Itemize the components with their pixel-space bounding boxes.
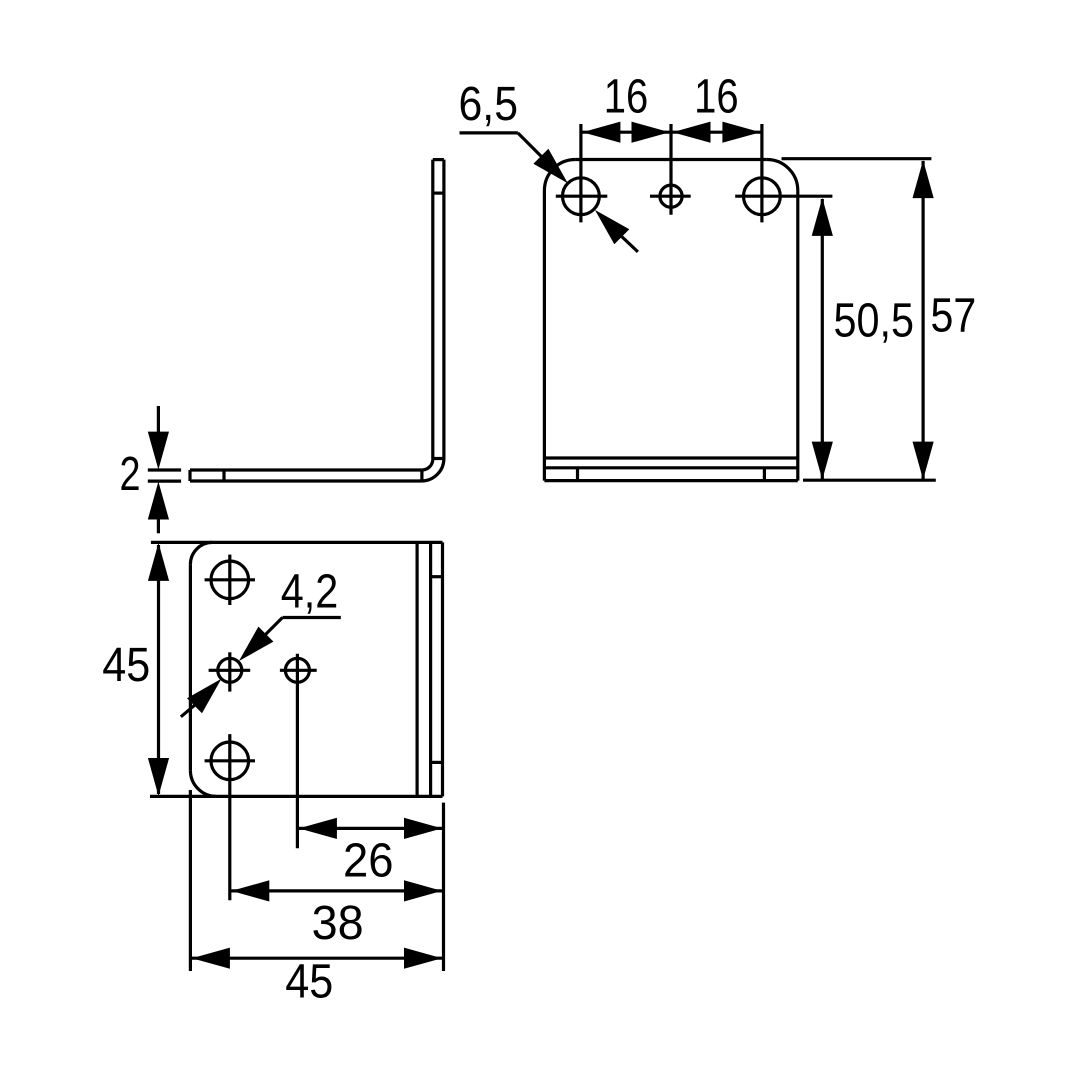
dimension 2: upper arrowhead bbox=[148, 432, 169, 470]
dimension 16 left span: right arrowhead bbox=[632, 122, 670, 143]
dimension 16 right span: right arrowhead bbox=[722, 122, 760, 143]
svg-text:38: 38 bbox=[312, 897, 364, 950]
dimension 57: top extension line bbox=[782, 157, 932, 160]
side view: horizontal leg left end cap bbox=[188, 470, 191, 481]
label 6,5: underline bbox=[460, 131, 518, 134]
dimension 57: dimension line bbox=[921, 161, 924, 479]
front view hole 1 horizontal centerline bbox=[556, 195, 608, 198]
dimension 26: right arrowhead bbox=[404, 818, 442, 839]
dimension 45 vertical: left edge extension below plate bbox=[189, 790, 192, 971]
front view hole 2 (4.2 mm) circle bbox=[660, 185, 682, 207]
top view: top-left corner radius bbox=[190, 542, 212, 564]
label 6,5: leader segment to arrow bbox=[518, 133, 542, 157]
top view: bottom-left corner radius bbox=[190, 770, 216, 796]
label 4,2: arrowhead at hole B upper edge bbox=[239, 627, 273, 661]
label 6,5: second arrowhead at hole 1 lower edge bbox=[595, 210, 629, 244]
top view: corner tangent tick upper bbox=[431, 575, 443, 578]
top view hole A vertical centerline bbox=[228, 555, 231, 605]
side view: vertical leg left edge bbox=[431, 160, 434, 460]
front view: plate bottom edge bbox=[544, 479, 797, 482]
side view: bend inner radius bbox=[422, 459, 433, 470]
dimension 57: lower arrowhead bbox=[913, 442, 934, 480]
svg-text:26: 26 bbox=[343, 835, 394, 888]
side view: corner-radius tangent tick on vertical leg bbox=[433, 192, 444, 195]
front view hole 1 (6.5 mm) circle bbox=[563, 178, 600, 215]
front view: top-left corner radius bbox=[544, 160, 575, 191]
svg-text:50,5: 50,5 bbox=[834, 295, 915, 348]
label 4,2: leader segment to arrow bbox=[266, 618, 283, 635]
svg-text:6,5: 6,5 bbox=[459, 78, 519, 131]
dimension 16 left span: left arrowhead bbox=[582, 122, 620, 143]
top view hole B horizontal centerline bbox=[209, 669, 251, 672]
dimension 45 horizontal: left arrowhead bbox=[192, 948, 230, 969]
top view: bend tangent line bbox=[416, 542, 419, 796]
top view: plate bottom edge with left extension bbox=[150, 795, 443, 798]
side view: vertical leg top end cap bbox=[433, 158, 444, 161]
dimension 38: dimension line bbox=[230, 889, 444, 892]
front view: top-right corner radius bbox=[767, 160, 798, 191]
top view hole D horizontal centerline bbox=[205, 759, 255, 762]
front view hole 2 vertical centerline / extension bbox=[669, 124, 672, 215]
front view: plate right edge bbox=[796, 191, 799, 481]
front view: plate top edge bbox=[575, 158, 766, 161]
front view hole 3 horizontal centerline / extension for 50.5 bbox=[735, 195, 832, 198]
svg-text:16: 16 bbox=[604, 70, 649, 123]
dimension 2: lower extension line bbox=[148, 480, 181, 483]
front view hole 2 horizontal centerline bbox=[650, 195, 691, 198]
svg-text:4,2: 4,2 bbox=[281, 566, 339, 619]
front view: plate left edge bbox=[543, 191, 546, 481]
top view hole C (4.2 mm) circle bbox=[285, 658, 309, 682]
dimension 2: lower arrow shaft bbox=[157, 519, 160, 533]
front view: corner tangent tick left bbox=[576, 468, 579, 481]
side view: corner-radius tangent tick on horizontal leg bbox=[222, 470, 225, 481]
label 4,2: second arrowhead at hole B lower edge bbox=[187, 679, 221, 713]
top view hole D vertical centerline extended to 38 dimension bbox=[228, 734, 231, 900]
dimension 50,5: lower arrowhead bbox=[812, 442, 833, 480]
dimension 26: dimension line bbox=[297, 827, 443, 830]
svg-text:57: 57 bbox=[931, 290, 977, 343]
svg-text:2: 2 bbox=[120, 448, 141, 501]
dimension 2: upper arrow shaft bbox=[157, 406, 160, 433]
svg-text:16: 16 bbox=[694, 70, 739, 123]
dimension 2: upper extension line bbox=[148, 468, 181, 471]
side view: vertical leg right edge bbox=[442, 160, 445, 459]
dimension 16 right span: left arrowhead bbox=[673, 122, 711, 143]
dimension 50,5: bottom extension line bbox=[803, 479, 936, 482]
top view hole C horizontal centerline bbox=[280, 669, 317, 672]
dimension 2: lower arrowhead bbox=[148, 482, 169, 520]
svg-text:45: 45 bbox=[285, 956, 333, 1009]
top view hole C vertical centerline extended to 26 dimension bbox=[296, 654, 299, 848]
dimension 45 vertical: lower arrowhead bbox=[148, 758, 169, 796]
front view hole 3 (6.5 mm) circle bbox=[744, 178, 781, 215]
label 4,2: second leader tail bbox=[181, 703, 197, 717]
dimension 50,5: dimension line bbox=[821, 199, 824, 479]
top view hole A horizontal centerline bbox=[205, 578, 255, 581]
label 6,5: arrowhead at hole 1 upper edge bbox=[533, 149, 567, 183]
dimension 38: right arrowhead bbox=[404, 880, 442, 901]
top view: plate top edge with left extension bbox=[151, 541, 443, 544]
dimension 50,5: upper arrowhead bbox=[812, 198, 833, 236]
dimension 45 vertical: right edge extension below plate bbox=[442, 803, 445, 971]
top view: plate left edge bbox=[189, 564, 192, 770]
top view hole B vertical centerline bbox=[228, 652, 231, 691]
label 6,5: second leader tail bbox=[619, 234, 638, 252]
top view hole D (6.5 mm) circle bbox=[211, 742, 249, 780]
front view: bend tangent line bbox=[544, 456, 797, 459]
dimension 57: upper arrowhead bbox=[913, 160, 934, 198]
front view hole 1 vertical centerline / extension bbox=[579, 124, 582, 222]
dimension 45 horizontal: right arrowhead bbox=[404, 948, 442, 969]
top view hole B (4.2 mm) circle bbox=[218, 658, 242, 682]
front view: horizontal leg front edge line bbox=[544, 466, 797, 469]
front view: corner tangent tick right bbox=[763, 468, 766, 481]
top view: plate right outer edge bbox=[441, 542, 444, 796]
svg-text:45: 45 bbox=[102, 639, 150, 692]
dimension 45 vertical: dimension line bbox=[157, 545, 160, 794]
top view hole A (6.5 mm) circle bbox=[211, 561, 249, 599]
dimension 26: left arrowhead bbox=[299, 818, 337, 839]
side view: horizontal leg top edge bbox=[190, 468, 422, 471]
dimension 45 vertical: upper arrowhead bbox=[148, 543, 169, 581]
side view: horizontal leg bottom edge bbox=[190, 479, 421, 482]
side view: bend tangent tick across horizontal leg bbox=[420, 470, 423, 481]
dimension 38: left arrowhead bbox=[231, 880, 269, 901]
front view hole 3 vertical centerline / extension bbox=[760, 124, 763, 222]
dimension 16 pair: dimension line bbox=[581, 131, 762, 134]
label 4,2: underline bbox=[283, 616, 341, 619]
dimension 45 horizontal: dimension line bbox=[190, 957, 443, 960]
top view: upright leg front face line bbox=[429, 542, 432, 796]
side view: bend outer radius bbox=[421, 459, 444, 482]
top view: corner tangent tick lower bbox=[431, 761, 443, 764]
side view: bend tangent tick across vertical leg bbox=[433, 457, 444, 460]
